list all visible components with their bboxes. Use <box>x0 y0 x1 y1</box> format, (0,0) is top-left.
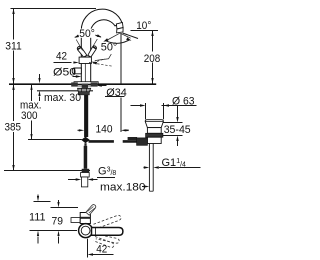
svg-text:10°: 10° <box>136 20 151 32</box>
svg-text:140: 140 <box>96 124 113 136</box>
svg-text:50°: 50° <box>101 41 118 53</box>
svg-text:35-45: 35-45 <box>164 124 191 136</box>
svg-text:Ø34: Ø34 <box>106 87 127 99</box>
svg-text:50°: 50° <box>79 28 95 40</box>
svg-text:Ø 63: Ø 63 <box>172 96 195 108</box>
svg-text:79: 79 <box>52 216 64 228</box>
svg-text:max. 30: max. 30 <box>44 92 81 104</box>
svg-text:300: 300 <box>21 110 38 122</box>
svg-text:385: 385 <box>5 121 22 133</box>
svg-text:Ø50: Ø50 <box>53 66 76 78</box>
svg-text:311: 311 <box>5 40 22 52</box>
svg-text:max.180: max.180 <box>100 181 146 193</box>
svg-text:208: 208 <box>144 53 161 65</box>
svg-text:42: 42 <box>56 51 67 63</box>
svg-text:42: 42 <box>96 244 107 256</box>
svg-text:111: 111 <box>29 212 46 224</box>
